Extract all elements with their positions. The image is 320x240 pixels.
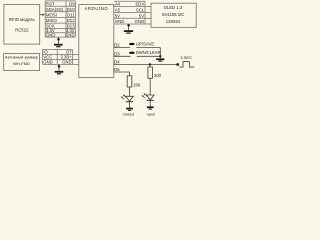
svg-text:closed: closed xyxy=(123,113,134,117)
LED2 open xyxy=(143,94,155,106)
svg-text:200: 200 xyxy=(154,73,162,78)
LED1 closed xyxy=(122,95,133,107)
svg-text:GND: GND xyxy=(62,60,71,65)
svg-text:D4: D4 xyxy=(114,60,120,65)
OLED display box xyxy=(151,3,196,27)
wire: RFID to table arrow xyxy=(40,14,44,16)
node: D4 end xyxy=(176,63,179,66)
ground B under table 2 xyxy=(58,64,60,71)
wire D4 junction to R2 xyxy=(149,65,151,68)
ground D buttons xyxy=(159,56,161,58)
svg-text:5V: 5V xyxy=(139,13,144,18)
svg-text:128X64: 128X64 xyxy=(166,19,181,24)
wire R2-LED2 xyxy=(149,78,151,95)
svg-text:OLED 1.3: OLED 1.3 xyxy=(164,5,183,10)
svg-text:Активный зуммер: Активный зуммер xyxy=(5,55,39,60)
wiring table 2 buzzer-Arduino xyxy=(43,50,79,65)
svg-text:GND: GND xyxy=(65,32,75,37)
svg-text:A5: A5 xyxy=(115,8,121,13)
svg-text:ARDUINO: ARDUINO xyxy=(84,6,108,11)
resistor R2 xyxy=(148,67,153,78)
svg-text:open: open xyxy=(147,113,155,117)
resistor R1 xyxy=(127,76,132,87)
svg-text:5V: 5V xyxy=(115,13,120,18)
svg-text:GND: GND xyxy=(46,32,56,37)
svg-text:GND: GND xyxy=(43,60,52,65)
svg-text:D3: D3 xyxy=(114,51,120,56)
svg-text:SDA(SS): SDA(SS) xyxy=(46,7,64,12)
pin D4 wire xyxy=(114,64,178,66)
pin D2 wire xyxy=(114,47,130,49)
node: D4 junction xyxy=(149,63,151,65)
svg-text:DWN/CLEAR: DWN/CLEAR xyxy=(136,50,161,55)
svg-text:SDA: SDA xyxy=(135,2,144,7)
pin D3 wire xyxy=(114,55,131,57)
ground E LED1 xyxy=(126,108,133,110)
svg-text:SCL: SCL xyxy=(136,8,145,13)
wire stubs to Arduino xyxy=(73,53,79,55)
svg-text:GND: GND xyxy=(135,19,145,24)
svg-text:MOSI: MOSI xyxy=(46,13,57,18)
wire R1-LED1 xyxy=(129,87,131,96)
RFID module box xyxy=(4,5,40,45)
ground F LED2 xyxy=(147,106,154,108)
svg-text:D9: D9 xyxy=(69,1,75,6)
svg-text:3 SEC: 3 SEC xyxy=(180,55,192,60)
wire stubs to OLED xyxy=(145,6,151,8)
svg-text:GND: GND xyxy=(115,19,125,24)
svg-text:RC522: RC522 xyxy=(15,28,29,33)
svg-text:MISO: MISO xyxy=(46,18,58,23)
wire buttons common xyxy=(159,48,161,57)
svg-text:WH-FMD: WH-FMD xyxy=(13,61,30,66)
svg-text:D6: D6 xyxy=(114,67,120,72)
svg-text:UP/SAVE: UP/SAVE xyxy=(136,41,154,46)
svg-text:200: 200 xyxy=(133,83,141,88)
buzzer box xyxy=(4,54,40,71)
pin D6 wire xyxy=(114,72,130,76)
svg-text:D2: D2 xyxy=(114,43,120,48)
svg-text:RST: RST xyxy=(46,1,55,6)
wiring table 3 Arduino-OLED xyxy=(114,1,151,24)
button S2 contact xyxy=(129,52,134,54)
svg-text:A4: A4 xyxy=(115,2,121,7)
wiring table 1 RFID-Arduino xyxy=(45,1,75,37)
svg-text:SH1106 I2C: SH1106 I2C xyxy=(162,12,185,17)
svg-text:D12: D12 xyxy=(67,18,75,23)
ground C under table 3 xyxy=(128,24,130,30)
button S1 contact xyxy=(129,43,134,45)
ground A under table 1 xyxy=(58,37,60,44)
svg-text:RFID модуль: RFID модуль xyxy=(9,17,36,22)
svg-text:D11: D11 xyxy=(67,13,75,18)
Arduino box U1 xyxy=(79,5,114,78)
svg-text:D10: D10 xyxy=(67,7,75,12)
